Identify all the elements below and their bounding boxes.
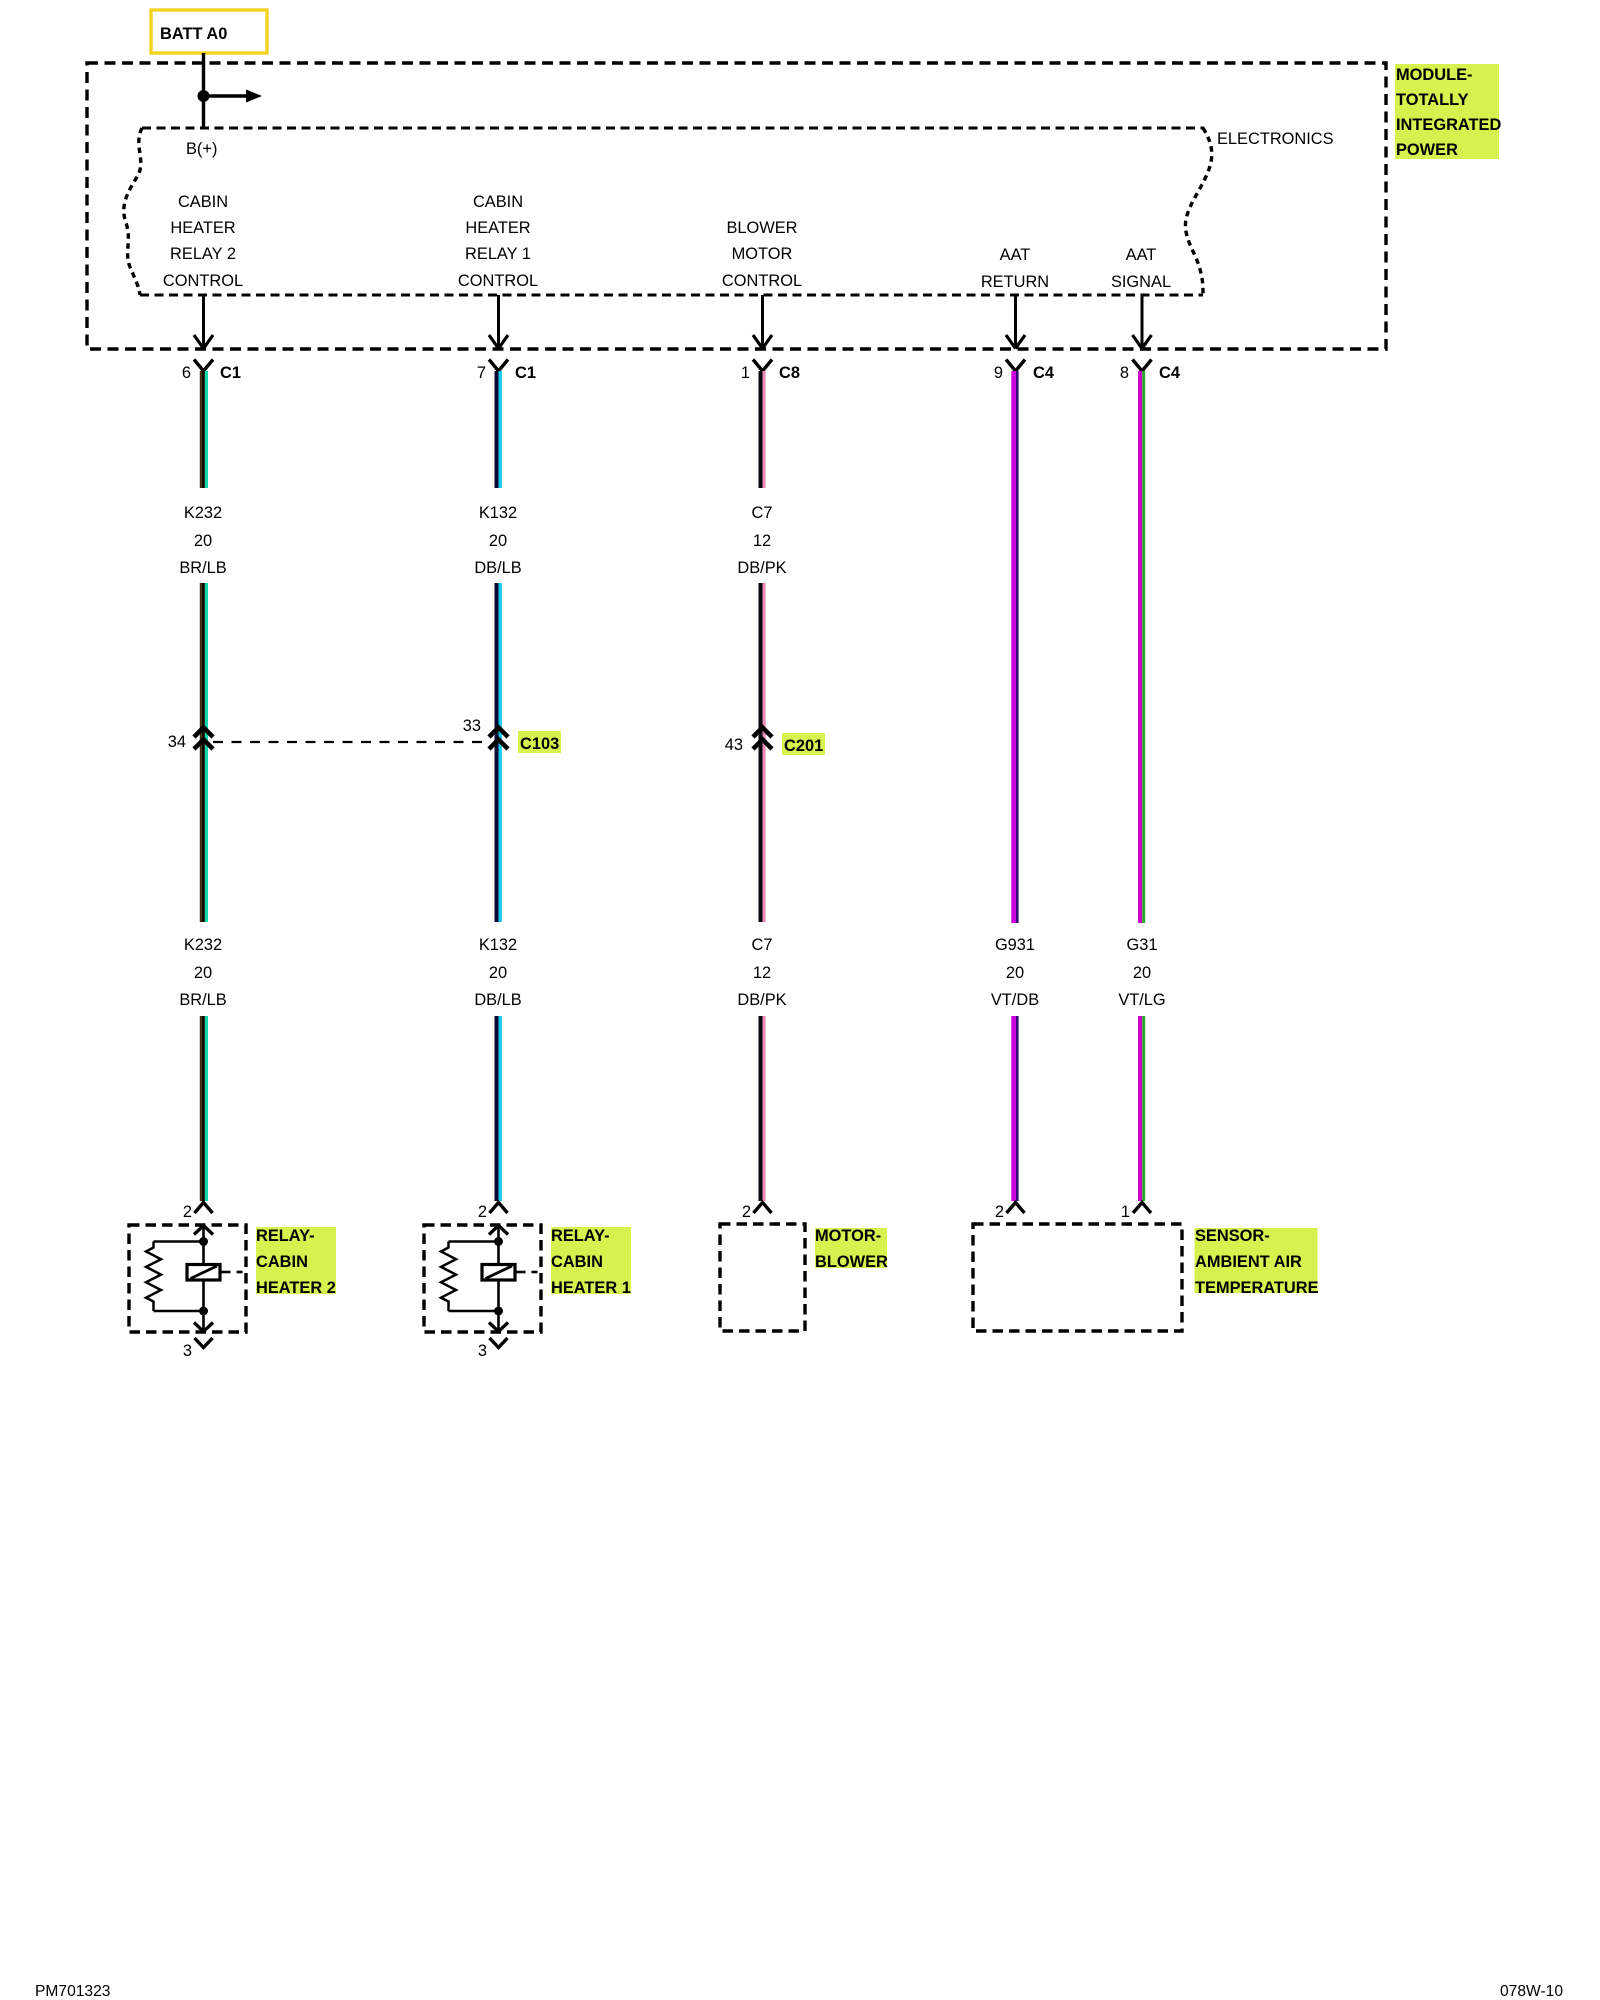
svg-text:C4: C4 [1159,364,1181,382]
wire label C7 12 DB/PK (upper) [737,504,786,577]
svg-text:TEMPERATURE: TEMPERATURE [1195,1279,1319,1297]
svg-text:BR/LB: BR/LB [179,991,226,1009]
relay R2 wire to resistor [154,1240,204,1242]
inner dashed block ELECTRONICS [124,128,1212,295]
svg-text:CABIN: CABIN [473,193,523,211]
pin label BLOWER MOTOR CONTROL [722,219,802,290]
wire module exit arrow col5 [1133,295,1152,349]
svg-text:CABIN: CABIN [256,1253,308,1271]
inline connector chevrons pin 34 C103 col1 [168,728,213,752]
svg-text:RELAY 1: RELAY 1 [465,245,531,263]
wire label C7 12 DB/PK (lower) [737,936,786,1009]
connector pin 2 at AAT sensor [995,1203,1025,1222]
svg-text:POWER: POWER [1396,141,1458,159]
svg-text:K132: K132 [479,504,517,522]
svg-text:DB/PK: DB/PK [737,991,786,1009]
svg-text:3: 3 [183,1342,192,1360]
wire label K232 20 BR/LB (upper) [179,504,226,577]
connector pin 7 C1 [477,360,536,383]
wire G931 20 VT/DB (violet / dark blue) col4 [1011,371,1018,1201]
connector pin 6 C1 [182,360,241,383]
svg-text:1: 1 [1121,1203,1130,1221]
svg-text:ELECTRONICS: ELECTRONICS [1217,130,1334,148]
wire C7 12 DB/PK (dark blue / pink) col3 [759,371,766,1201]
svg-text:C1: C1 [515,364,536,382]
svg-text:20: 20 [1006,964,1024,982]
connector pin 3 below relay R1 [478,1338,508,1360]
inline connector chevrons pin 43 C201 col3 [725,728,772,755]
wire label K132 20 DB/LB (upper) [474,504,521,577]
connector pin 9 C4 [994,360,1055,383]
svg-text:RELAY-: RELAY- [551,1227,610,1245]
relay R1 coil [482,1242,538,1312]
relay R1 resistor [441,1242,456,1312]
relay R2 resistor [146,1242,161,1312]
svg-text:DB/PK: DB/PK [737,559,786,577]
motor MOTOR-BLOWER dashed box [720,1224,805,1331]
svg-text:K132: K132 [479,936,517,954]
svg-text:BATT A0: BATT A0 [160,25,227,43]
svg-text:20: 20 [489,532,507,550]
svg-text:SIGNAL: SIGNAL [1111,273,1171,291]
connector pin 3 below relay R2 [183,1338,213,1360]
svg-text:INTEGRATED: INTEGRATED [1396,116,1501,134]
svg-text:1: 1 [741,364,750,382]
connector pin 8 C4 [1120,360,1181,383]
svg-text:C7: C7 [752,936,773,954]
wire label G931 20 VT/DB [991,936,1039,1009]
svg-text:20: 20 [1133,964,1151,982]
svg-text:MODULE-: MODULE- [1396,66,1472,84]
svg-text:CONTROL: CONTROL [722,272,802,290]
svg-text:BLOWER: BLOWER [726,219,797,237]
relay R1 wire resistor to bottom node [449,1310,499,1312]
relay R1 wire to resistor [449,1240,499,1242]
component label SENSOR-AMBIENT AIR TEMPERATURE [1195,1227,1319,1297]
node B(+) junction [198,90,210,102]
svg-text:VT/LG: VT/LG [1118,991,1165,1009]
svg-text:078W-10: 078W-10 [1500,1983,1563,2000]
pin label CABIN HEATER RELAY 1 CONTROL [458,193,538,290]
relay R2 entry arrow pin 2 [194,1225,213,1241]
power feed box BATT A0 [151,10,267,53]
svg-text:C4: C4 [1033,364,1055,382]
connector pin 2 at relay R2 [183,1203,213,1222]
svg-text:K232: K232 [184,504,222,522]
svg-text:12: 12 [753,964,771,982]
wire module exit arrow col2 [489,295,508,349]
relay RELAY-CABIN HEATER 1 dashed box [424,1225,541,1332]
component label RELAY-CABIN HEATER 1 [551,1227,631,1297]
module box MODULE-TOTALLY INTEGRATED POWER (outer dashed) [87,63,1386,349]
relay R2 top junction node [199,1237,208,1246]
svg-text:2: 2 [183,1203,192,1221]
svg-text:20: 20 [489,964,507,982]
svg-text:BLOWER: BLOWER [815,1253,888,1271]
relay R1 top junction node [494,1237,503,1246]
component label MOTOR-BLOWER [815,1227,888,1271]
svg-text:G31: G31 [1127,936,1158,954]
svg-text:K232: K232 [184,936,222,954]
svg-text:33: 33 [463,717,481,735]
module label MODULE-TOTALLY INTEGRATED POWER [1395,64,1501,159]
svg-text:AAT: AAT [1126,246,1157,264]
connector pin 1 at AAT sensor [1121,1203,1151,1222]
svg-text:VT/DB: VT/DB [991,991,1039,1009]
component label RELAY-CABIN HEATER 2 [256,1227,336,1297]
wire module exit arrow col4 [1006,295,1025,349]
svg-text:C201: C201 [784,737,823,755]
svg-text:C8: C8 [779,364,800,382]
wire label K132 20 DB/LB (lower) [474,936,521,1009]
wire G31 20 VT/LG (violet / light green) col5 [1138,371,1145,1201]
relay RELAY-CABIN HEATER 2 dashed box [129,1225,246,1332]
svg-text:HEATER 1: HEATER 1 [551,1279,631,1297]
svg-text:HEATER 2: HEATER 2 [256,1279,336,1297]
svg-text:7: 7 [477,364,486,382]
svg-text:G931: G931 [995,936,1035,954]
svg-text:DB/LB: DB/LB [474,991,521,1009]
svg-text:HEATER: HEATER [465,219,530,237]
svg-text:TOTALLY: TOTALLY [1396,91,1469,109]
pin label AAT SIGNAL [1111,246,1171,291]
svg-text:MOTOR: MOTOR [732,245,793,263]
wire module exit arrow col3 [753,295,772,349]
svg-text:43: 43 [725,736,743,754]
relay R2 coil [187,1242,243,1312]
svg-text:RETURN: RETURN [981,273,1049,291]
svg-text:C103: C103 [520,735,559,753]
pin label AAT RETURN [981,246,1049,291]
svg-text:C1: C1 [220,364,241,382]
connector label C201 [782,733,825,755]
svg-text:CABIN: CABIN [178,193,228,211]
svg-text:2: 2 [995,1203,1004,1221]
svg-text:AMBIENT AIR: AMBIENT AIR [1195,1253,1302,1271]
inline connector chevrons pin 33 C103 col2 [463,717,508,749]
relay R1 bottom junction node [494,1307,503,1316]
pin label CABIN HEATER RELAY 2 CONTROL [163,193,243,290]
wire K132 20 DB/LB (dark blue / light blue) col2 [495,371,502,1201]
svg-text:CONTROL: CONTROL [163,272,243,290]
wire label G31 20 VT/LG [1118,936,1165,1009]
wire K232 20 BR/LB (brown / light blue) col1 [200,371,208,1201]
svg-text:RELAY-: RELAY- [256,1227,315,1245]
relay R2 exit arrow pin 3 [194,1311,213,1332]
connector label C103 [518,731,561,753]
relay R2 wire resistor to bottom node [154,1310,204,1312]
svg-text:34: 34 [168,733,186,751]
svg-text:DB/LB: DB/LB [474,559,521,577]
svg-text:CABIN: CABIN [551,1253,603,1271]
wire module exit arrow col1 [194,295,213,349]
relay R2 bottom junction node [199,1307,208,1316]
svg-text:RELAY 2: RELAY 2 [170,245,236,263]
relay R1 entry arrow pin 2 [489,1225,508,1241]
dashed link line between connector 34 and 33 [213,741,487,743]
svg-text:12: 12 [753,532,771,550]
svg-text:PM701323: PM701323 [35,1983,110,2000]
svg-text:2: 2 [742,1203,751,1221]
svg-text:HEATER: HEATER [170,219,235,237]
svg-text:B(+): B(+) [186,140,217,158]
svg-text:2: 2 [478,1203,487,1221]
svg-text:C7: C7 [752,504,773,522]
relay R1 exit arrow pin 3 [489,1311,508,1332]
svg-text:AAT: AAT [1000,246,1031,264]
wire branch arrow right [204,90,263,103]
svg-text:6: 6 [182,364,191,382]
svg-text:20: 20 [194,964,212,982]
svg-text:3: 3 [478,1342,487,1360]
svg-text:8: 8 [1120,364,1129,382]
svg-text:MOTOR-: MOTOR- [815,1227,881,1245]
wire B(+) from BATT A0 into module [202,53,205,128]
connector pin 2 at relay R1 [478,1203,508,1222]
svg-text:BR/LB: BR/LB [179,559,226,577]
svg-text:9: 9 [994,364,1003,382]
sensor SENSOR-AMBIENT AIR TEMPERATURE dashed box [973,1224,1182,1331]
connector pin 1 C8 [741,360,800,383]
svg-text:SENSOR-: SENSOR- [1195,1227,1270,1245]
connector pin 2 at blower motor [742,1203,772,1222]
wire label K232 20 BR/LB (lower) [179,936,226,1009]
svg-text:20: 20 [194,532,212,550]
svg-text:CONTROL: CONTROL [458,272,538,290]
